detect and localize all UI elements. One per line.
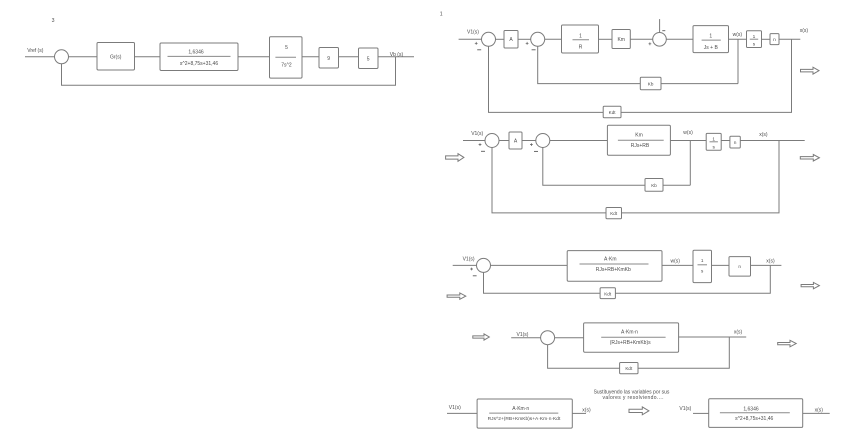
block 1/R (562, 25, 599, 53)
wire S11 to A (496, 38, 505, 40)
arrow step indicator left of diagram3 (447, 293, 466, 299)
wire input bottom-right block (693, 412, 709, 414)
wire w(s) tap down diagram2 (689, 141, 691, 186)
svg-text:s^2+8,75s+31,46: s^2+8,75s+31,46 (735, 416, 773, 422)
wire input to summing junction S11 (459, 38, 482, 40)
svg-text:Kdt: Kdt (610, 211, 618, 216)
wire output x(s) bottom-left (572, 412, 586, 414)
wire S21 down to Kdt line diagram2 (492, 148, 606, 213)
block Kdt diagram3 (600, 288, 615, 299)
svg-text:Vb (s): Vb (s) (390, 52, 404, 58)
summing junction S21 (485, 134, 499, 148)
label minus sign S31r (473, 275, 477, 277)
wire disturbance input from top (659, 19, 661, 32)
wire 1/s to n (762, 38, 771, 40)
wire Kdt to x(s) tap diagram3 (615, 265, 770, 293)
label minus sign S12 (532, 49, 536, 51)
label plus sign S13 (649, 42, 652, 45)
wire Km to summing junction S13 (630, 38, 652, 40)
svg-text:RJs+RB: RJs+RB (631, 143, 650, 149)
block 1,6346/(s^2+8,75s+31,46) (709, 399, 803, 428)
wire S31 to Gr(s) (69, 56, 98, 58)
wire feedback loop of left diagram (62, 57, 396, 86)
arrow step indicator bottom center (629, 407, 649, 415)
svg-text:Km: Km (617, 37, 625, 43)
block 1/(Js+B) (693, 26, 729, 53)
svg-text:Js + B: Js + B (704, 45, 719, 51)
wire G4 to G5 (339, 56, 359, 58)
wire block to 1/s diagram3 (662, 264, 693, 266)
svg-text:Kdt: Kdt (604, 291, 612, 296)
wire A to summing junction S22 (522, 140, 536, 142)
wire 1/R to Km (599, 38, 613, 40)
wire block to 1/s diagram2 (670, 140, 706, 142)
block A.Km/(RJs+RB+KmKb) (567, 251, 662, 282)
block A diagram2 (509, 132, 522, 149)
svg-text:Vref (s): Vref (s) (27, 48, 44, 54)
block A.Km.n/((RJs+RB+KmKb)s) (584, 323, 679, 352)
block G4 value 9 (319, 48, 339, 69)
block 1/s diagram2 (706, 133, 721, 150)
wire S31r to block (491, 264, 568, 266)
wire output Vb(s) (378, 56, 414, 58)
svg-text:1,6346: 1,6346 (188, 49, 204, 55)
block Km/(RJs+RB) (607, 125, 670, 155)
svg-text:s: s (701, 269, 704, 274)
svg-text:V1(s): V1(s) (517, 332, 529, 338)
svg-text:V1(s): V1(s) (471, 131, 483, 137)
wire Kdt to x(s) tap (621, 39, 792, 112)
svg-text:V1(s): V1(s) (679, 406, 691, 412)
block Kdt diagram1 (603, 106, 621, 118)
svg-text:Kb: Kb (648, 81, 654, 86)
svg-text:7s^2: 7s^2 (281, 62, 292, 68)
summing junction S31 (55, 50, 69, 64)
wire output x(s) bottom-right (803, 412, 830, 414)
wire input bottom-left block (447, 412, 477, 414)
label plus sign S11 (475, 42, 478, 45)
svg-text:A·Km: A·Km (604, 256, 617, 262)
wire output x(s) diagram4 (679, 336, 747, 338)
wire G2 to G3 (238, 56, 270, 58)
label minus sign S22 (534, 150, 538, 152)
wire input to summing junction S31r (453, 264, 477, 266)
svg-text:(RJs+RB+KmKb)s: (RJs+RB+KmKb)s (610, 340, 651, 346)
wire G3 to G4 (302, 56, 319, 58)
block n diagram2 (730, 136, 740, 148)
svg-text:5: 5 (367, 56, 370, 62)
summing junction S31r (477, 258, 491, 272)
wire output x(s) diagram3 (751, 264, 782, 266)
svg-text:Kb: Kb (651, 183, 657, 188)
arrow step indicator left of diagram4 (473, 334, 490, 340)
wire S22 to Km/(RJs+RB) (550, 140, 608, 142)
wire S13 to 1/(Js+B) (666, 38, 693, 40)
label plus sign S21 (479, 143, 482, 146)
block G5 value 5 (359, 48, 379, 69)
svg-text:w(s): w(s) (683, 130, 693, 136)
svg-text:RJs^2+(RB+KmKb)s+A·Km·n·Kdt: RJs^2+(RB+KmKb)s+A·Km·n·Kdt (488, 416, 561, 422)
arrow step indicator right of diagram1 (801, 67, 820, 74)
arrow step indicator right of diagram4 (778, 340, 797, 347)
svg-text:3: 3 (52, 18, 55, 24)
wire Gr(s) to G2 (135, 56, 161, 58)
block A (amplifier) diagram1 (504, 31, 518, 49)
block 1/s diagram3 (693, 250, 712, 282)
summing junction S22 (536, 134, 550, 148)
svg-text:s: s (712, 145, 715, 150)
summing junction S11 (482, 32, 496, 46)
svg-text:Km: Km (635, 132, 643, 138)
wire output x(s) diagram1 (779, 38, 800, 40)
svg-text:x(s): x(s) (800, 28, 809, 34)
wire S41 to block diagram4 (555, 337, 584, 339)
svg-text:Kdt: Kdt (625, 366, 633, 371)
label plus sign S12 (526, 42, 529, 45)
svg-text:x(s): x(s) (815, 408, 824, 414)
svg-text:1,6346: 1,6346 (743, 407, 759, 413)
label minus sign S13 (662, 30, 665, 32)
svg-text:Kdt: Kdt (609, 110, 617, 115)
svg-text:RJs+RB+KmKb: RJs+RB+KmKb (596, 267, 631, 273)
arrow step indicator left of diagram2 (446, 154, 464, 162)
svg-text:A: A (509, 37, 513, 43)
block 1/s diagram1 (747, 31, 762, 48)
wire S12 down to Kb line (538, 46, 641, 83)
svg-text:A: A (514, 138, 518, 144)
wire input to summing junction S21 (463, 140, 485, 142)
svg-text:V1(s): V1(s) (467, 30, 479, 36)
wire input to summing junction S41 (511, 337, 540, 339)
svg-text:A·Km·n: A·Km·n (512, 406, 529, 412)
label minus sign S21 (481, 150, 485, 152)
svg-text:x(s): x(s) (734, 329, 743, 335)
block G2 value 1,6346 / s^2+8,75s+31,46 (160, 43, 238, 71)
svg-text:V1(s): V1(s) (449, 405, 461, 411)
arrow step indicator right of diagram2 (800, 155, 819, 162)
svg-text:1: 1 (701, 258, 704, 263)
svg-text:1: 1 (440, 11, 443, 17)
block n diagram3 (729, 257, 751, 277)
svg-text:Gr(s): Gr(s) (110, 54, 122, 60)
svg-text:x(s): x(s) (759, 132, 768, 138)
summing junction S13 (653, 33, 667, 47)
wire Kdt to x(s) tap diagram2 (622, 141, 780, 213)
svg-text:w(s): w(s) (733, 32, 743, 38)
wire S21 to A (499, 140, 509, 142)
svg-text:A·Km·n: A·Km·n (621, 329, 638, 335)
block Kb diagram2 (645, 179, 663, 192)
svg-text:s^2+8,75s+31,46: s^2+8,75s+31,46 (180, 61, 218, 67)
svg-text:n: n (773, 38, 776, 43)
svg-text:x(s): x(s) (766, 258, 775, 264)
svg-text:x(s): x(s) (582, 407, 591, 413)
svg-text:R: R (579, 45, 583, 51)
wire 1/s to n diagram2 (721, 140, 730, 142)
block Kdt diagram4 (620, 363, 638, 374)
block Km diagram1 (612, 30, 630, 49)
svg-text:n: n (734, 141, 737, 146)
wire S11 down to Kdt line (489, 46, 604, 112)
arrow step indicator right of diagram3 (801, 282, 819, 288)
block A.Km.n/(RJs^2+(RB+KmKb)s+A.Km.n.Kdt) (477, 399, 572, 428)
wire Kb to w(s) tap (661, 83, 738, 85)
wire S31r down to Kdt line diagram3 (484, 272, 601, 293)
block Gr(s) (97, 43, 135, 71)
svg-text:9: 9 (327, 56, 330, 62)
summing junction S12 (531, 32, 545, 46)
svg-text:n: n (738, 264, 741, 269)
wire Js+B to 1/s (729, 38, 747, 40)
svg-text:s: s (753, 43, 756, 48)
wire A to summing junction S12 (518, 38, 531, 40)
wire Kdt to x(s) tap diagram4 (638, 337, 729, 368)
svg-text:V1(s): V1(s) (463, 257, 475, 263)
wire S12 to 1/R (545, 38, 562, 40)
svg-text:1: 1 (709, 33, 712, 39)
wire Kb to w(s) tap diagram2 (663, 184, 690, 186)
label plus sign S31r (470, 268, 473, 271)
wire input to summing junction S31 (25, 56, 55, 58)
wire output x(s) diagram2 (740, 140, 804, 142)
svg-text:5: 5 (285, 45, 288, 51)
label plus sign S22 (530, 143, 533, 146)
label minus sign S11 (477, 49, 481, 51)
wire S41 down to Kdt line diagram4 (548, 345, 620, 369)
svg-text:1: 1 (579, 33, 582, 39)
wire 1/s to n diagram3 (712, 264, 730, 266)
block n diagram1 (770, 34, 779, 45)
wire Kb tap from w(s) node (737, 39, 739, 83)
svg-text:w(s): w(s) (671, 258, 681, 264)
svg-text:valores y resolviendo....: valores y resolviendo.... (603, 395, 664, 401)
wire S22 down to Kb line diagram2 (543, 148, 645, 186)
block Kb diagram1 (640, 77, 661, 89)
block G3 value 5 / 7s^2 (270, 37, 303, 78)
block Kdt diagram2 (606, 208, 622, 219)
summing junction S41 (541, 331, 555, 345)
